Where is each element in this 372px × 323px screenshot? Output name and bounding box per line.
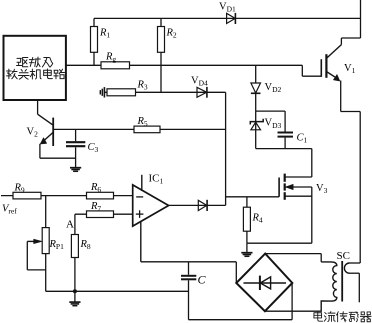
svg-text:A: A: [66, 219, 74, 231]
svg-text:C: C: [198, 273, 207, 287]
svg-text:SC: SC: [337, 250, 350, 262]
